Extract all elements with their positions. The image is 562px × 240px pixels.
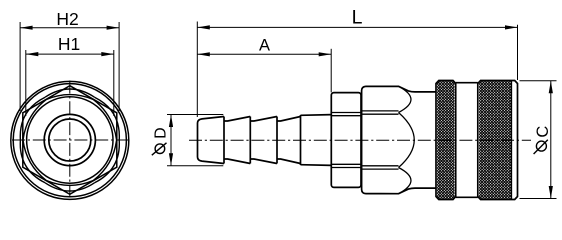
svg-text:D: D <box>152 127 169 138</box>
sleeve outline <box>478 81 518 200</box>
cone upper facet arc <box>399 86 411 112</box>
dimension øC <box>520 81 557 199</box>
centerline horizontal front view <box>12 139 128 141</box>
knurl hatch sleeve <box>359 81 562 198</box>
knurled ring 1 outline <box>436 81 456 200</box>
dimension A <box>197 49 331 93</box>
bore outer ring <box>44 114 95 165</box>
centerline side view <box>189 139 531 141</box>
svg-text:H1: H1 <box>58 34 80 54</box>
hexagon point-up <box>23 86 117 195</box>
groove top edge <box>456 82 478 84</box>
svg-text:C: C <box>534 126 552 138</box>
chamfer arc set 2 (inner scallops) <box>19 95 121 186</box>
barb tooth 4 ramps <box>277 117 301 164</box>
tooth face 4 <box>300 115 302 165</box>
label øC: diameter symbol <box>536 141 546 151</box>
label øD: diameter symbol <box>155 144 165 154</box>
chamfer arc set 1 (outer scallops) <box>13 89 126 191</box>
barb tooth 2 ramps <box>224 117 250 164</box>
tooth face 3 <box>276 117 278 164</box>
barb tooth 1 <box>198 117 225 164</box>
cone facet edge lines <box>362 111 399 169</box>
svg-text:L: L <box>352 7 363 29</box>
bore inner ring <box>49 119 91 161</box>
groove bottom edge <box>456 196 478 198</box>
knurl hatch ring 1 <box>317 81 562 198</box>
dimension H1 <box>26 50 114 116</box>
outer circle A (sleeve OD) <box>11 81 129 199</box>
centerline vertical front view <box>69 81 71 201</box>
outer circle B (groove OD) <box>13 84 126 197</box>
tooth face 1 <box>223 117 225 164</box>
tooth face 2 <box>249 117 251 164</box>
dimension øD <box>167 115 223 166</box>
nut chamfer lines <box>331 113 361 168</box>
dimension L <box>197 22 517 118</box>
stem bottom edge <box>301 164 332 167</box>
cone hex section outline <box>362 86 436 193</box>
svg-text:H2: H2 <box>56 9 78 29</box>
cone lower facet arc <box>399 168 411 194</box>
H1 circle <box>27 97 113 183</box>
svg-text:A: A <box>259 37 270 55</box>
dimension H2 <box>20 22 119 111</box>
sleeve band divider <box>511 81 513 199</box>
stem top edge <box>301 114 332 117</box>
barb tooth 3 ramps <box>250 117 277 164</box>
hex nut outline <box>331 93 361 188</box>
cone front facet arc <box>399 113 415 168</box>
